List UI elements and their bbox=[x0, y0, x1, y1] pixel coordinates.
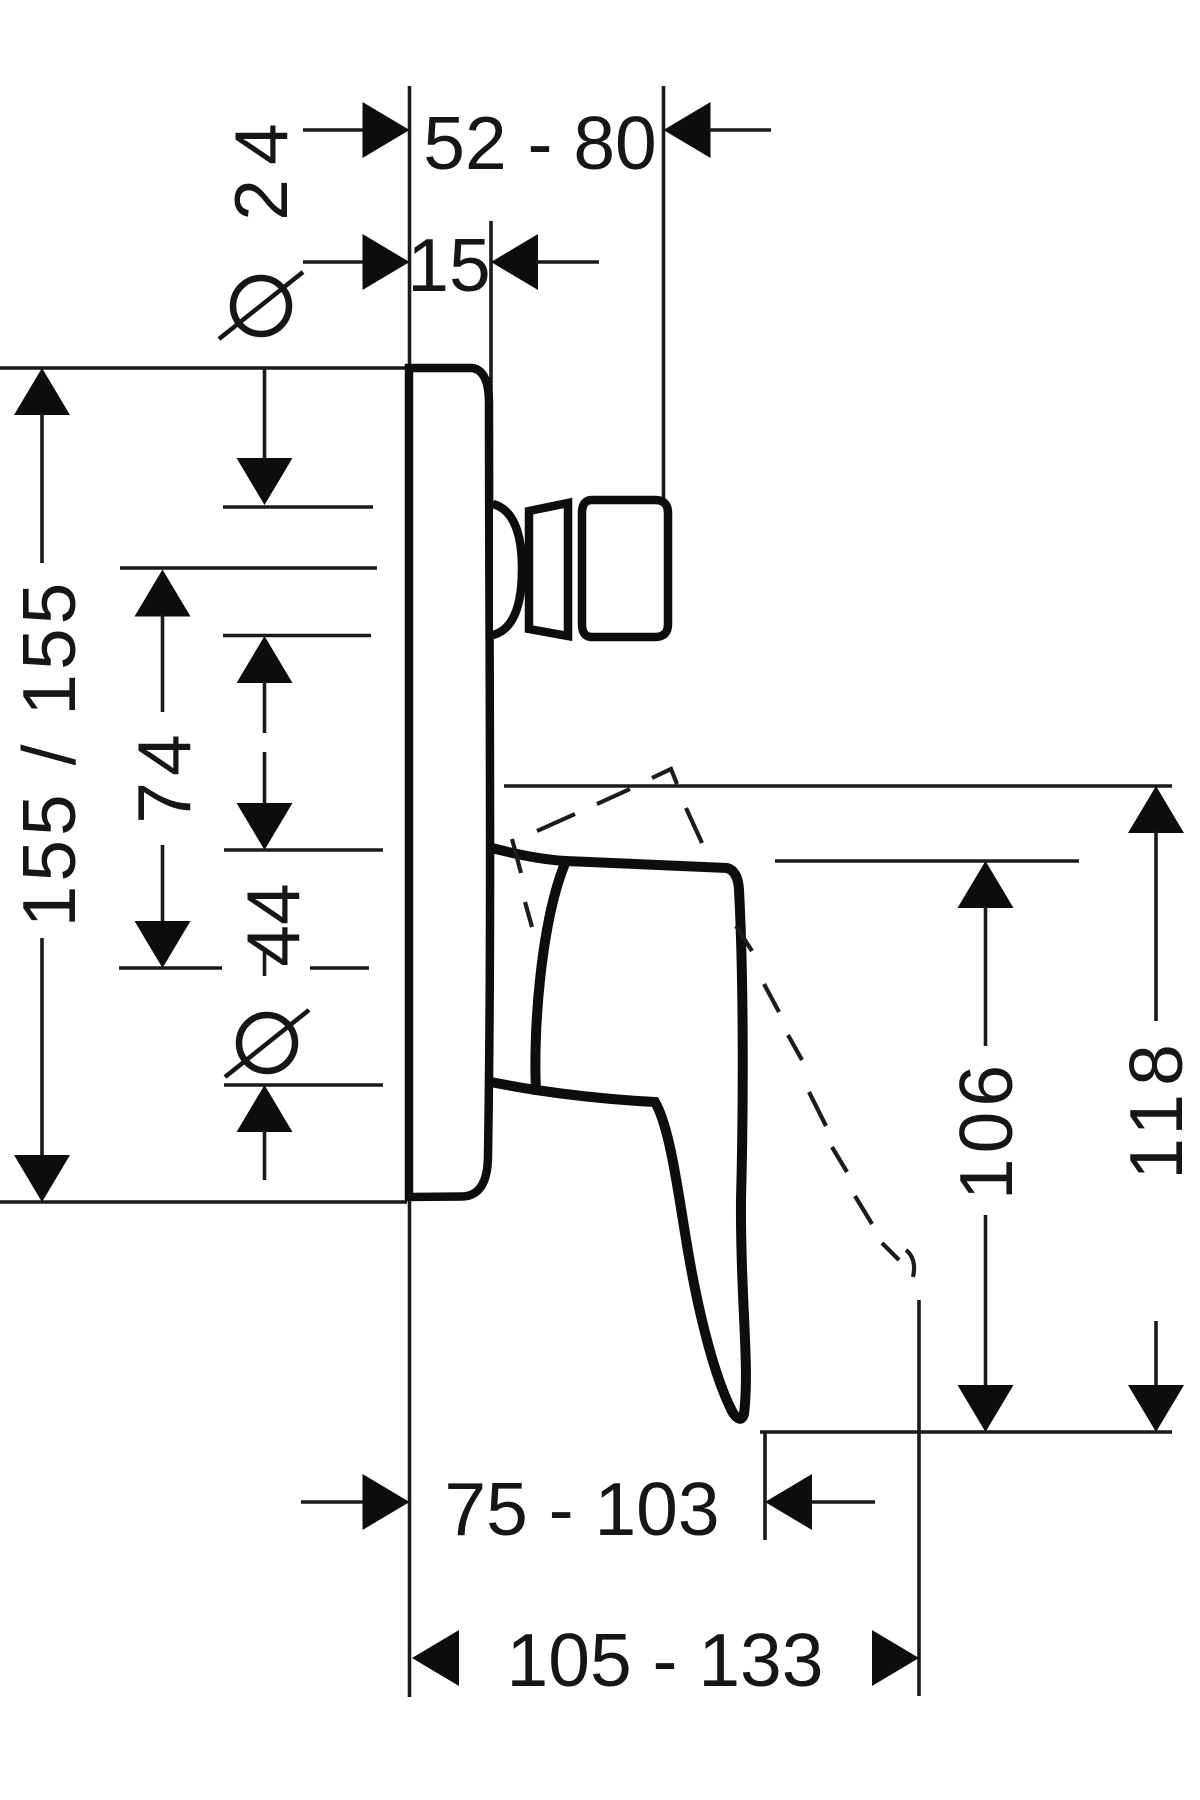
handle neck bottom bbox=[486, 1081, 536, 1090]
escutcheon plate bbox=[409, 368, 490, 1197]
wire extension line handle bottom bbox=[224, 1083, 383, 1087]
svg-text:75 - 103: 75 - 103 bbox=[444, 1467, 719, 1551]
handle lever body bbox=[535, 861, 746, 1419]
wire extension line right of 52-80 bbox=[662, 86, 666, 501]
svg-text:74: 74 bbox=[122, 728, 206, 823]
node dimension 105-133 bbox=[412, 1630, 459, 1686]
wire extension line knob top bbox=[223, 505, 373, 509]
node dimension 75-103 bbox=[301, 1500, 365, 1504]
knob collar bbox=[529, 503, 568, 636]
svg-text:118: 118 bbox=[1114, 1036, 1198, 1180]
node dimension 74 bbox=[135, 570, 191, 617]
svg-text:106: 106 bbox=[944, 1060, 1028, 1200]
node label rotated 44 bbox=[231, 883, 315, 966]
node dimension 52-80 arrows bbox=[303, 128, 365, 132]
wire extension line knob bottom bbox=[223, 634, 371, 638]
knob body bbox=[582, 500, 668, 637]
dashed raised blade bbox=[736, 926, 752, 951]
svg-text:44: 44 bbox=[231, 883, 315, 966]
wire extension line solid handle top right bbox=[775, 859, 1079, 863]
node label rotated diameter 24 bbox=[219, 109, 303, 220]
handle neck top bbox=[492, 848, 566, 861]
wire extension line right of 15 bbox=[489, 221, 493, 395]
dashed raised handle upper edge bbox=[537, 814, 575, 831]
svg-text:24: 24 bbox=[219, 109, 303, 220]
wire extension line plate top bbox=[0, 366, 407, 370]
wire extension line handle axis bbox=[119, 966, 222, 970]
svg-text:155 / 155: 155 / 155 bbox=[7, 579, 91, 928]
wire extension line plate bottom bbox=[0, 1200, 407, 1204]
wire extension line 105-133 right bbox=[917, 1300, 921, 1696]
knob dome bbox=[493, 504, 522, 635]
node dimension diameter 24 arrows bbox=[263, 368, 267, 460]
node dimension 155/155 bbox=[14, 368, 70, 415]
svg-text:15: 15 bbox=[407, 223, 490, 307]
svg-text:105 - 133: 105 - 133 bbox=[507, 1618, 824, 1702]
wire extension line knob axis bbox=[120, 566, 377, 570]
node dimension 15 arrows bbox=[303, 260, 365, 264]
svg-text:52 - 80: 52 - 80 bbox=[423, 101, 657, 185]
node label rotated diameter symbol bbox=[239, 1015, 295, 1071]
wire wall line bbox=[408, 86, 412, 1697]
wire extension line handle top bbox=[224, 848, 383, 852]
wire extension line blade tip level bbox=[760, 1430, 1172, 1434]
node dimension 106 bbox=[958, 861, 1014, 908]
node dimension 118 bbox=[1128, 786, 1184, 833]
wire extension line 75-103 right bbox=[763, 1432, 767, 1540]
dashed raised handle lower edge bbox=[512, 839, 521, 873]
wire extension line raised handle top bbox=[504, 784, 1172, 788]
